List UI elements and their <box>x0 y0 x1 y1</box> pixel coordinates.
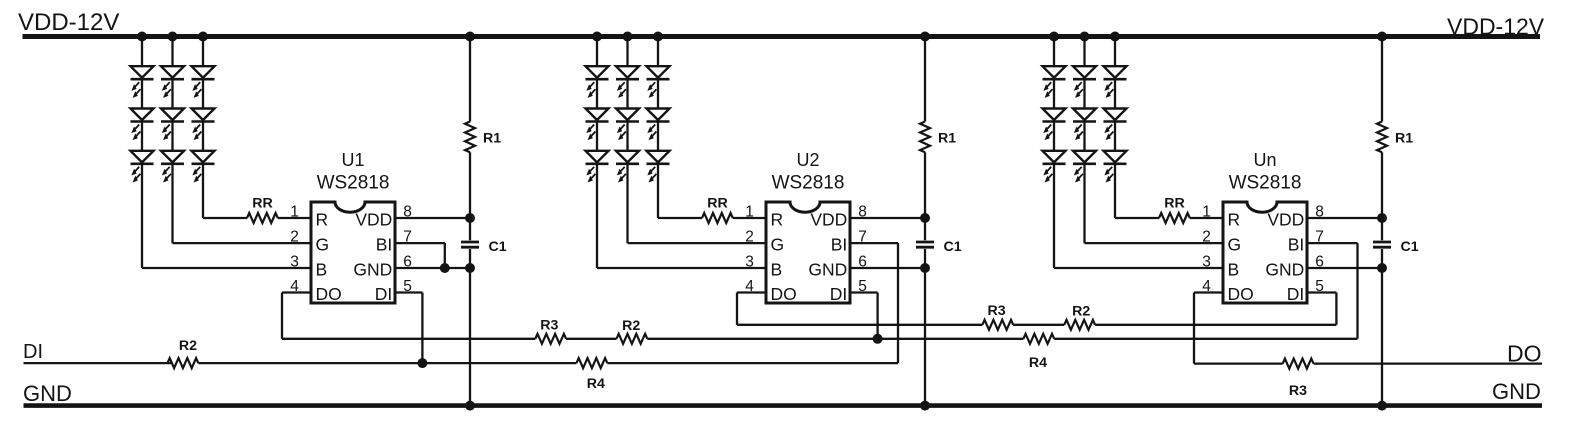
resistor body R3 stage3 <box>1283 359 1314 369</box>
svg-text:U2: U2 <box>796 150 819 170</box>
LED D131 <box>192 66 215 97</box>
resistor body RR Un <box>1159 213 1190 223</box>
LED D113 <box>131 151 154 182</box>
svg-text:R1: R1 <box>483 131 501 147</box>
wire U2 DO run <box>737 324 982 326</box>
LED Dn13 <box>1043 151 1066 182</box>
wire LED column 2 stage Un <box>1083 37 1085 244</box>
wire pin8 VDD U1 <box>395 217 470 219</box>
LED D221 <box>616 66 639 97</box>
svg-text:WS2818: WS2818 <box>1229 173 1302 194</box>
capacitor C1 Un plate top <box>1373 241 1391 244</box>
svg-text:R3: R3 <box>540 318 558 334</box>
resistor body RR U2 <box>702 213 733 223</box>
wire DI input line <box>24 362 173 364</box>
wire U1 pin5 drop <box>421 293 423 364</box>
wire R1 to C1 U2 <box>924 152 926 240</box>
wire Un DO run <box>1194 362 1283 364</box>
wire LED column 1 stage U1 <box>141 37 143 269</box>
resistor body RR U1 <box>247 213 278 223</box>
junction pin8/R1 Un <box>1377 213 1387 223</box>
wire LED column 1 stage Un <box>1053 37 1055 269</box>
wire LED column 2 stage U1 <box>171 37 173 244</box>
LED D132 <box>192 109 215 140</box>
svg-text:R4: R4 <box>1029 355 1047 371</box>
svg-text:U1: U1 <box>341 150 364 170</box>
wire U1 pin4 stub <box>282 291 311 293</box>
svg-text:C1: C1 <box>489 239 507 255</box>
wire U1 DO drop <box>281 293 283 339</box>
wire G to pin2 Un <box>1085 242 1224 244</box>
svg-text:R2: R2 <box>179 338 197 354</box>
LED Dn21 <box>1073 66 1096 97</box>
svg-text:Un: Un <box>1253 150 1276 170</box>
wire DI node to R4 stage1 <box>422 362 576 364</box>
LED D212 <box>586 109 609 140</box>
junction VDD-col2 Un <box>1080 32 1090 42</box>
wire B to pin3 U2 <box>597 267 766 269</box>
junction VDD-col3 Un <box>1110 32 1120 42</box>
resistor body R1 U1 <box>465 122 475 153</box>
wire R1 to C1 Un <box>1381 152 1383 240</box>
svg-text:R2: R2 <box>1072 303 1090 319</box>
junction VDD-col3 U1 <box>198 32 208 42</box>
wire LED column 3 stage U1 <box>202 37 204 219</box>
svg-text:DI: DI <box>23 341 43 363</box>
wire R1 to C1 U1 <box>469 152 471 240</box>
junction U1 BI/GND <box>440 263 450 273</box>
capacitor C1 U1 plate bottom <box>461 246 479 249</box>
wire R4 to U2 BI run <box>607 362 898 364</box>
junction GND/col U2 <box>920 401 930 411</box>
wire RR to pin1 U2 <box>733 217 766 219</box>
LED D122 <box>161 109 184 140</box>
junction VDD/R1-col U2 <box>920 32 930 42</box>
wire pin8 VDD U2 <box>850 217 925 219</box>
LED Dn22 <box>1073 109 1096 140</box>
wire Un BI drop <box>1356 243 1358 339</box>
wire U2 pin5 drop <box>876 293 878 339</box>
wire LED column 1 stage U2 <box>596 37 598 269</box>
junction pin8/R1 U2 <box>920 213 930 223</box>
resistor body R3 stage2 <box>982 320 1013 330</box>
wire G to pin2 U2 <box>628 242 767 244</box>
junction pin6/C1 U1 <box>465 263 475 273</box>
junction GND/col Un <box>1377 401 1387 411</box>
junction pin6/C1 U2 <box>920 263 930 273</box>
wire U1 pin7 BI stub <box>395 242 445 244</box>
capacitor C1 U1 plate top <box>461 241 479 244</box>
wire U2 pin7 BI stub <box>850 242 898 244</box>
svg-text:RR: RR <box>707 196 728 212</box>
svg-text:R1: R1 <box>938 131 956 147</box>
LED Dn23 <box>1073 151 1096 182</box>
junction VDD/R1-col U1 <box>465 32 475 42</box>
wire G to pin2 U1 <box>173 242 312 244</box>
wire R2 to R4 run <box>647 338 1023 340</box>
wire R4 to Un BI run <box>1054 338 1357 340</box>
svg-text:RR: RR <box>1164 196 1185 212</box>
wire VDD to R1 U1 <box>469 37 471 122</box>
resistor body R2 stage2 <box>1064 320 1095 330</box>
resistor body R1 U2 <box>920 122 930 153</box>
wire Un DO drop <box>1193 293 1195 364</box>
resistor body R2 input <box>168 358 199 368</box>
LED D123 <box>161 151 184 182</box>
wire B to pin3 Un <box>1054 267 1223 269</box>
svg-text:R3: R3 <box>1289 383 1307 399</box>
wire Un pin7 BI stub <box>1307 242 1358 244</box>
wire R to RR Un <box>1115 217 1159 219</box>
capacitor C1 U2 plate bottom <box>916 246 934 249</box>
wire pin6 GND U2 <box>850 267 925 269</box>
wire pin6 GND U1 <box>395 267 470 269</box>
wire LED column 3 stage U2 <box>657 37 659 219</box>
wire U1 BI drop <box>444 243 446 268</box>
wire U1 DO run <box>282 338 535 340</box>
wire Un DI rise <box>1335 293 1337 325</box>
LED D213 <box>586 151 609 182</box>
wire DO output line <box>1314 362 1543 364</box>
capacitor C1 U2 plate top <box>916 241 934 244</box>
LED D233 <box>647 151 670 182</box>
LED D112 <box>131 109 154 140</box>
junction VDD-col1 U1 <box>137 32 147 42</box>
wire RR to pin1 Un <box>1190 217 1223 219</box>
LED Dn31 <box>1104 66 1127 97</box>
wire U2 pin4 stub <box>737 291 766 293</box>
wire U2 DO drop <box>736 293 738 325</box>
resistor body R4 stage1 <box>577 358 608 368</box>
wire pin8 VDD Un <box>1307 217 1382 219</box>
wire B to pin3 U1 <box>142 267 311 269</box>
svg-text:WS2818: WS2818 <box>772 173 845 194</box>
wire VDD rail <box>23 34 1541 39</box>
capacitor C1 Un plate bottom <box>1373 246 1391 249</box>
LED D232 <box>647 109 670 140</box>
junction VDD-col2 U1 <box>168 32 178 42</box>
junction VDD-col1 Un <box>1049 32 1059 42</box>
wire Un pin5 stub <box>1307 291 1336 293</box>
LED Dn11 <box>1043 66 1066 97</box>
svg-text:R3: R3 <box>988 303 1006 319</box>
wire R to RR U2 <box>658 217 702 219</box>
svg-text:VDD-12V: VDD-12V <box>18 9 119 36</box>
svg-text:R1: R1 <box>1395 131 1413 147</box>
resistor body R1 Un <box>1377 122 1387 153</box>
LED Dn33 <box>1104 151 1127 182</box>
wire U2 BI drop <box>897 243 899 363</box>
resistor body R4 stage2 <box>1023 334 1054 344</box>
junction VDD-col1 U2 <box>592 32 602 42</box>
svg-text:R4: R4 <box>587 376 605 392</box>
wire C1 to GND U1 <box>469 249 471 406</box>
IC Un WS2818 <box>1202 202 1324 304</box>
junction pin6/C1 Un <box>1377 263 1387 273</box>
LED D211 <box>586 66 609 97</box>
svg-text:GND: GND <box>23 381 72 406</box>
wire GND rail <box>24 403 1543 408</box>
LED D121 <box>161 66 184 97</box>
junction GND/col U1 <box>465 401 475 411</box>
svg-text:GND: GND <box>1492 379 1541 404</box>
junction pin8/R1 U1 <box>465 213 475 223</box>
resistor body R3 stage1 <box>535 334 566 344</box>
wire VDD to R1 U2 <box>924 37 926 122</box>
wire C1 to GND Un <box>1381 249 1383 406</box>
wire LED column 3 stage Un <box>1114 37 1116 219</box>
wire Un pin4 stub <box>1194 291 1223 293</box>
wire C1 to GND U2 <box>924 249 926 406</box>
LED D111 <box>131 66 154 97</box>
svg-text:RR: RR <box>252 196 273 212</box>
junction U2 DI node <box>873 334 883 344</box>
wire R3-R2 link stage2 <box>1013 324 1064 326</box>
svg-text:C1: C1 <box>944 239 962 255</box>
wire LED column 2 stage U2 <box>626 37 628 244</box>
wire R2 to Un DI run <box>1095 324 1336 326</box>
IC U1 WS2818 <box>290 202 412 304</box>
junction VDD/R1-col Un <box>1377 32 1387 42</box>
svg-text:R2: R2 <box>622 318 640 334</box>
LED D222 <box>616 109 639 140</box>
wire VDD to R1 Un <box>1381 37 1383 122</box>
wire R2 to U1 DI <box>198 362 422 364</box>
LED Dn12 <box>1043 109 1066 140</box>
LED D231 <box>647 66 670 97</box>
wire R to RR U1 <box>203 217 247 219</box>
LED D133 <box>192 151 215 182</box>
LED D223 <box>616 151 639 182</box>
svg-text:WS2818: WS2818 <box>317 173 390 194</box>
wire RR to pin1 U1 <box>278 217 311 219</box>
LED Dn32 <box>1104 109 1127 140</box>
junction VDD-col3 U2 <box>653 32 663 42</box>
junction U1 DI node <box>417 358 427 368</box>
wire R3-R2 link stage1 <box>566 338 616 340</box>
IC U2 WS2818 <box>745 202 867 304</box>
wire U1 pin5 stub <box>395 291 422 293</box>
resistor body R2 stage1 <box>617 334 648 344</box>
junction VDD-col2 U2 <box>623 32 633 42</box>
wire U2 pin5 stub <box>850 291 878 293</box>
wire pin6 GND Un <box>1307 267 1382 269</box>
svg-text:C1: C1 <box>1401 239 1419 255</box>
